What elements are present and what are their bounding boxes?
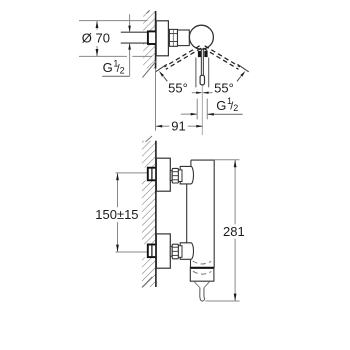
stub bottom [178,246,182,258]
lever swing dashed line right (rotated position) [203,46,240,70]
union hex nut (side view) [169,29,177,46]
stub top [178,170,182,182]
angle extension segment left [156,64,167,72]
union boss top (front view) [180,166,193,184]
svg-text:2: 2 [120,65,125,75]
outlet taper [194,282,200,288]
body column (front view) [187,160,215,268]
angle extension segment right [237,64,248,72]
wall union nut top (front view, bold) [148,168,156,181]
svg-text:150±15: 150±15 [95,207,138,222]
lever swing dashed line left (rotated position) [164,46,201,70]
svg-text:G: G [103,60,113,75]
svg-text:Ø 70: Ø 70 [82,30,110,45]
svg-text:2: 2 [233,103,238,113]
body cylinder (side view) [178,30,190,46]
hidden edge dashed arc upper [193,261,212,264]
wall union nut bottom (front view, bold) [148,245,156,258]
escutcheon flange top (front view) [156,158,170,191]
hose nipple [200,288,205,301]
hex nut top (front view) [172,168,178,183]
wall union nut (side view, bold) [148,31,156,44]
valve head circle (side view) [189,25,213,49]
svg-text:G: G [216,98,226,113]
supply pipe opening in wall [143,33,148,43]
connector tube bottom [170,246,172,256]
outlet thread extension line left [196,99,198,120]
extension line hose bottom [206,300,240,302]
svg-text:55°: 55° [168,81,188,96]
supply openings in wall (front view) [142,168,148,181]
body bottom bold line [190,267,214,269]
supply pipe (side view) [121,31,148,33]
lever angle reference arrows at lever [192,92,202,94]
escutcheon flange bottom (front view) [156,234,170,268]
extension line bottom connection [116,251,148,253]
extension line top connection [116,172,148,174]
angle arrow right [240,71,245,77]
wall section (side view, hatched) [143,11,155,69]
outlet thread extension line right [206,99,208,120]
lever mount collar (bold) [198,51,201,57]
wall break mark top (side view) [147,10,150,13]
hex nut bottom (front view) [172,244,178,259]
escutcheon flange (side view) [156,21,168,56]
dimension 150 +/- 15 [117,173,119,207]
dimension 281 [234,160,236,225]
extension line body top [214,159,239,161]
svg-text:55°: 55° [214,81,234,96]
flange diameter extension lines [79,20,148,22]
svg-text:91: 91 [171,119,185,134]
union boss bottom (front view) [180,243,193,259]
wall section (front view, hatched) [142,141,156,287]
outlet thread dimension arrows [181,113,197,115]
connector tube top [170,171,172,181]
wall break mark bottom (front view) [142,277,152,288]
supply thread leader G 1/2 [129,14,131,32]
lever rod [200,49,202,75]
lever grip [200,75,204,85]
angle arrow left [159,71,164,77]
dimension 91 [155,69,157,131]
shower outlet tube behind lever [195,58,197,88]
svg-text:281: 281 [223,224,245,239]
hidden edge dashed arc lower [193,271,211,274]
wall break mark bottom (side view) [142,61,156,77]
outlet block [190,268,214,281]
centerline of lever/outlet [201,86,203,136]
dimension line D70 [96,21,98,30]
wall break mark top (front view) [146,136,153,142]
